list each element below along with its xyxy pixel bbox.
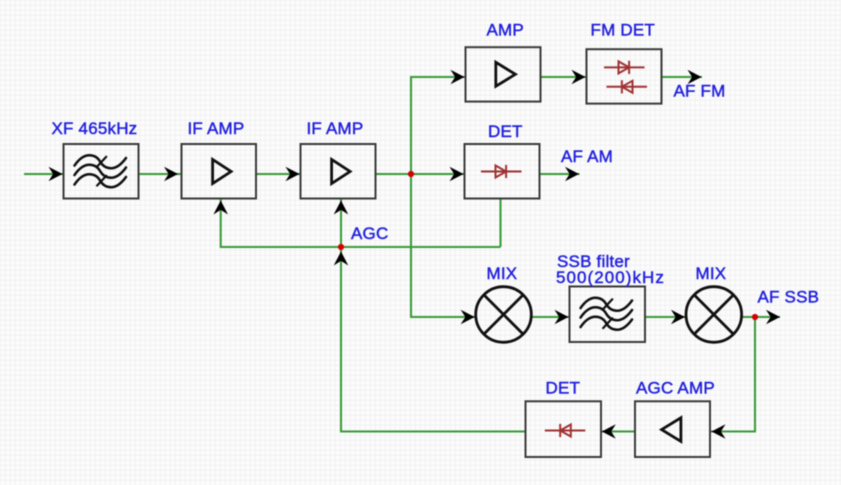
- block FM DET (ratio detector, two diodes): [587, 49, 662, 103]
- svg-text:AF FM: AF FM: [674, 82, 726, 101]
- wire DET (AGC) feedback to AGC node: [334, 247, 527, 432]
- block AGC AMP: [635, 401, 710, 457]
- wire AGC distribution line to IF AMP 1: [213, 199, 500, 248]
- svg-text:MIX: MIX: [696, 264, 727, 283]
- wire FM DET output AF FM: [662, 70, 703, 85]
- svg-text:XF 465kHz: XF 465kHz: [52, 119, 138, 138]
- svg-text:IF AMP: IF AMP: [307, 119, 364, 138]
- wire DET output AF AM: [540, 167, 580, 182]
- wire node to AMP (FM branch): [411, 70, 466, 174]
- node AF SSB output (junction to AGC AMP): [752, 314, 758, 320]
- wire AGC AMP to DET (AGC): [601, 424, 635, 439]
- svg-text:AMP: AMP: [487, 21, 524, 40]
- wire AGC node up to IF AMP 2: [334, 199, 349, 248]
- svg-text:500(200)kHz: 500(200)kHz: [556, 268, 665, 287]
- wire IF AMP 2 to DET (AM): [376, 167, 465, 182]
- node AGC (junction of AGC feedback and distribution): [338, 244, 344, 250]
- svg-text:AF AM: AF AM: [561, 147, 613, 166]
- wire MIX 2 output AF SSB: [742, 310, 780, 325]
- block IF AMP 2: [301, 144, 376, 199]
- mixer MIX 1: [476, 287, 532, 343]
- wire AMP to FM DET: [540, 70, 587, 85]
- block DET (AGC detector diode): [526, 401, 602, 457]
- wire SSB filter to MIX 2: [645, 310, 686, 325]
- wire AF SSB node down to AGC AMP input: [710, 317, 755, 439]
- mixer MIX 2: [686, 287, 742, 343]
- wire DET (AM) bottom to AGC line: [499, 199, 501, 248]
- svg-text:AGC AMP: AGC AMP: [636, 379, 715, 398]
- block AMP (FM branch): [466, 47, 541, 101]
- svg-text:AGC: AGC: [351, 224, 388, 243]
- wire IF AMP 1 to IF AMP 2: [256, 167, 301, 182]
- node after IF AMP 2 (junction to FM/AM/SSB branches): [408, 171, 414, 177]
- block IF AMP 1: [182, 144, 257, 199]
- svg-text:MIX: MIX: [487, 264, 518, 283]
- wire MIX 1 to SSB filter: [531, 310, 569, 325]
- wire node to MIX 1 (SSB branch): [411, 174, 476, 324]
- block XF 465kHz crystal filter: [64, 144, 139, 199]
- svg-text:IF AMP: IF AMP: [188, 119, 245, 138]
- wire XF filter to IF AMP 1: [139, 167, 182, 182]
- block DET (AM detector diode): [465, 144, 540, 199]
- svg-text:AF SSB: AF SSB: [758, 288, 820, 307]
- wire input to XF filter: [24, 167, 64, 182]
- block SSB filter 500(200)kHz: [570, 287, 646, 343]
- svg-text:DET: DET: [488, 122, 523, 141]
- svg-text:FM DET: FM DET: [591, 21, 655, 40]
- svg-text:DET: DET: [546, 379, 581, 398]
